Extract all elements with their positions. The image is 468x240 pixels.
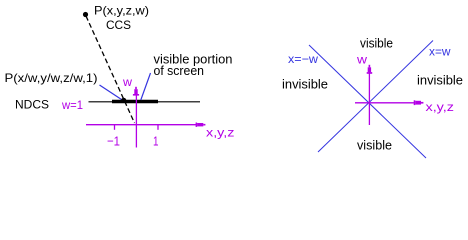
svg-text:w: w [122,75,132,89]
svg-text:visible: visible [360,36,393,51]
svg-text:NDCS: NDCS [15,98,49,112]
svg-text:P(x,y,z,w): P(x,y,z,w) [94,4,149,18]
projected point dot on w=1 [121,98,126,103]
svg-text:1: 1 [153,133,159,148]
right diagram: clip line x=w (bottom-left to top-right) [318,41,433,153]
left w axis arrowhead [135,87,137,89]
right x axis shaft [355,102,415,104]
tick +1 [157,125,159,130]
visible portion thick segment [112,100,158,103]
svg-text:x,y,z: x,y,z [206,126,235,140]
point P(x,y,z,w) CCS dot [83,12,88,17]
svg-text:w: w [356,53,368,67]
w=1 plane thin line [89,101,201,103]
svg-text:CCS: CCS [106,18,131,32]
right diagram: clip line x=-w (top-left to bottom-right) [309,45,426,158]
left w axis shaft [135,94,137,148]
right w axis shaft [368,72,370,125]
svg-text:P(x/w,y/w,z/w,1): P(x/w,y/w,z/w,1) [5,71,98,85]
blue pointer from NDCS point label to dot [100,85,122,100]
svg-text:visible: visible [357,137,392,152]
right x axis arrowhead [414,100,416,105]
left x axis arrowhead [196,123,198,127]
svg-text:−1: −1 [107,134,120,149]
svg-text:invisible: invisible [417,73,463,88]
svg-text:x=−w: x=−w [288,52,318,66]
dashed projection line from P through origin [86,16,135,123]
left x axis shaft [86,124,197,126]
right w axis arrowhead [369,65,371,68]
svg-text:w=1: w=1 [61,98,83,112]
svg-text:of screen: of screen [154,64,205,78]
svg-text:x,y,z: x,y,z [426,100,455,114]
tick -1 [114,125,116,130]
svg-text:invisible: invisible [282,77,328,92]
svg-text:x=w: x=w [429,44,451,58]
blue pointer from of-screen label to thick segment [141,73,151,100]
